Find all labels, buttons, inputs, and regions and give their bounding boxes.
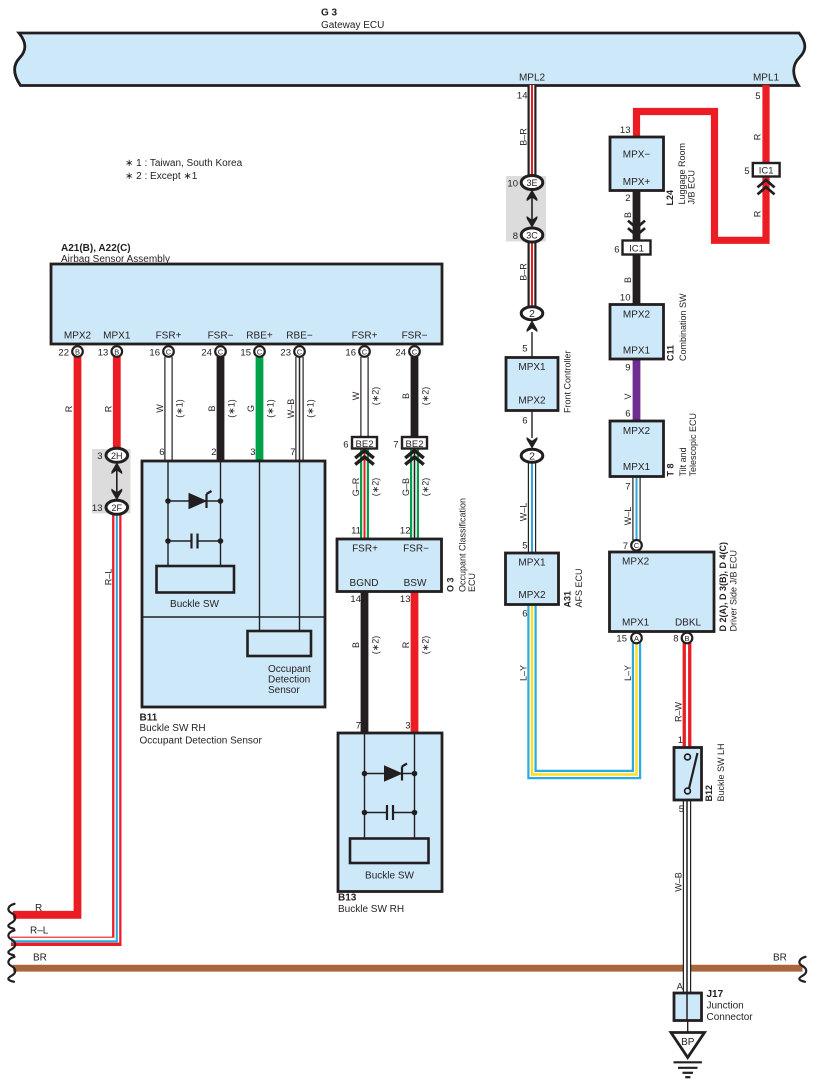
ECU C11 combination SW [610,305,664,360]
wire G RBE+ to B11 [256,357,264,461]
wire W-B RBE- to B11 [295,357,303,461]
svg-text:3: 3 [405,721,410,732]
svg-text:13: 13 [620,125,631,136]
svg-text:MPL2: MPL2 [519,73,546,84]
svg-text:MPX1: MPX1 [622,618,650,629]
svg-text:MPX1: MPX1 [103,331,131,342]
svg-text:Combination SW: Combination SW [678,293,688,361]
svg-text:R: R [401,641,411,648]
svg-text:MPX−: MPX− [623,150,651,161]
svg-text:R: R [753,133,763,140]
svg-text:MPL1: MPL1 [753,73,780,84]
svg-text:MPX2: MPX2 [518,590,546,601]
svg-text:B: B [401,393,411,399]
svg-text:2H: 2H [111,451,123,461]
diode (zener) in B11 [165,491,223,509]
svg-text:Sensor: Sensor [268,685,300,696]
svg-text:16: 16 [345,348,356,359]
terminal 24(C) FSR- [215,346,226,357]
svg-text:R: R [35,903,42,914]
svg-text:14: 14 [350,594,361,605]
svg-text:(∗2): (∗2) [371,387,381,406]
svg-text:3: 3 [250,447,255,458]
svg-text:A31: A31 [563,591,573,608]
terminal 24(C) FSR-2 [409,346,420,357]
svg-text:L–Y: L–Y [519,665,529,681]
joint circle 2 upper [521,307,543,320]
terminal 23(C) RBE- [294,346,305,357]
wire L-Y from A31 to D-JB pin15 [532,605,637,775]
svg-text:MPX2: MPX2 [622,557,650,568]
svg-text:BSW: BSW [404,578,427,589]
svg-text:6: 6 [343,440,348,451]
svg-text:7: 7 [290,447,295,458]
wire R BSW to B13 [411,592,419,734]
svg-text:Buckle SW RH: Buckle SW RH [338,904,404,915]
break squiggle BR left [8,957,15,982]
svg-text:C: C [634,541,640,550]
arrow pair between 2H and 2F [111,462,122,500]
svg-text:Buckle SW: Buckle SW [365,871,414,882]
wire W FSR+ to B11 [164,357,172,461]
buckle SW box in B13 [350,839,429,864]
svg-text:13: 13 [92,503,103,514]
svg-text:12: 12 [400,526,411,537]
wire B L24 to C11 [633,191,641,305]
svg-text:16: 16 [149,348,160,359]
svg-text:R–L: R–L [30,926,49,937]
svg-text:FSR−: FSR− [208,331,234,342]
svg-text:W–B: W–B [286,399,296,419]
svg-text:AFS ECU: AFS ECU [574,568,584,607]
svg-text:R: R [103,405,113,412]
svg-text:MPX1: MPX1 [623,346,651,357]
svg-text:13: 13 [98,348,109,359]
svg-text:B: B [623,212,633,218]
wire thin J17 to BP ground [687,1021,689,1034]
svg-text:RBE+: RBE+ [246,331,273,342]
svg-text:R–L: R–L [103,569,113,586]
wire W-L joint2 to A31 [528,463,536,554]
connector oval 3E [521,176,543,190]
ECU T8 tilt and telescopic [610,421,664,477]
wire R-L from 2F to left break [11,514,117,942]
svg-text:8: 8 [673,634,678,645]
svg-text:DBKL: DBKL [675,618,702,629]
wire G-B BE2 to O3 [410,449,419,539]
wire B-R from 3C to joint 2 [528,242,537,307]
svg-text:FSR+: FSR+ [352,544,378,555]
svg-text:Front Controller: Front Controller [563,350,573,413]
ground BP triangle [671,1033,705,1058]
svg-text:B11: B11 [140,713,158,724]
svg-text:(∗2): (∗2) [421,387,431,406]
svg-text:Buckle SW: Buckle SW [170,599,219,610]
connector oval 2F [106,500,128,514]
svg-text:B: B [623,277,633,283]
svg-text:Connector: Connector [707,1012,754,1023]
connector IC1 on L24 black wire [629,222,644,236]
svg-text:Buckle SW LH: Buckle SW LH [716,743,726,801]
svg-text:MPX1: MPX1 [518,558,546,569]
svg-text:(∗1): (∗1) [266,399,276,418]
svg-text:L24: L24 [665,190,675,206]
svg-text:L–Y: L–Y [623,665,633,681]
wire R-W D-JB pin8 to B12 [683,643,692,748]
break squiggle R-L [8,930,15,955]
terminal 13(B) MPX1 [112,346,123,357]
ECU L24 luggage room J/B [610,137,664,191]
terminal 16(C) FSR+2 [359,346,370,357]
wire W FSR+2 to BE2 [360,357,368,437]
break squiggle BR right [799,957,806,982]
svg-text:A21(B), A22(C): A21(B), A22(C) [61,243,131,254]
svg-text:FSR−: FSR− [402,331,428,342]
svg-text:Luggage Room: Luggage Room [677,143,687,205]
svg-text:MPX2: MPX2 [64,331,92,342]
svg-text:W–L: W–L [623,507,633,526]
svg-text:ECU: ECU [467,573,477,592]
svg-text:C: C [257,347,263,356]
svg-text:(∗2): (∗2) [421,636,431,655]
svg-text:(∗1): (∗1) [306,399,316,418]
ECU B13 buckle SW RH [338,733,442,892]
svg-text:2: 2 [529,451,535,463]
svg-text:5: 5 [522,344,527,355]
ECU front controller [506,358,558,411]
gray connector block 3E/3C [506,176,546,242]
connector IC1 on MPL1 red wire [753,163,780,177]
buckle SW box in B11 [157,566,235,593]
svg-text:11: 11 [351,526,361,537]
svg-text:6: 6 [614,245,619,256]
ECU airbag sensor assembly A21/A22 [51,264,442,344]
terminal 22(B) MPX2 [72,346,83,357]
svg-text:Buckle SW RH: Buckle SW RH [140,723,206,734]
svg-text:B: B [75,347,80,356]
svg-text:C: C [412,347,418,356]
svg-text:C: C [362,347,368,356]
wire W-B B12 to J17 [683,800,691,1021]
svg-text:24: 24 [395,348,406,359]
wire B-R from MPL2 to 3E [528,85,537,176]
svg-text:6: 6 [625,409,630,420]
break squiggle R [8,904,15,929]
svg-text:B: B [351,642,361,648]
connector oval 2H [106,448,128,462]
svg-text:D 2(A), D 3(B), D 4(C): D 2(A), D 3(B), D 4(C) [718,542,728,632]
gateway band G3 [15,33,805,86]
occupant detection sensor box in B11 [248,631,312,656]
svg-text:5: 5 [744,166,749,177]
svg-text:1: 1 [678,735,683,746]
svg-text:B: B [684,634,689,643]
svg-text:MPX2: MPX2 [518,396,546,407]
svg-text:2: 2 [625,193,630,204]
svg-text:IC1: IC1 [629,244,644,255]
svg-text:MPX1: MPX1 [623,462,651,473]
ECU A31 AFS [506,553,559,605]
terminal circles airbag assembly [72,346,420,357]
svg-text:3E: 3E [526,178,537,188]
wire W-L T8 to D-JB [632,477,640,541]
svg-text:G–B: G–B [401,478,411,496]
svg-text:∗ 2 : Except ∗1: ∗ 2 : Except ∗1 [125,171,198,182]
connector BE2 pin6 [352,437,377,449]
wire B BGND to B13 [361,592,369,734]
svg-text:15: 15 [240,348,251,359]
connector BE2 pin7 [402,437,427,449]
svg-text:10: 10 [507,179,518,190]
switch B12 buckle SW LH [674,748,702,801]
wire G-R BE2 to O3 [360,449,369,539]
wire V C11 to T8 [633,359,641,421]
svg-text:7: 7 [625,482,630,493]
WIRE COLOR LABELS (vertical) [64,128,763,892]
svg-text:(∗2): (∗2) [421,478,431,497]
junction connector J17 [674,993,702,1021]
ECU O3 occupant classification [337,539,442,592]
svg-text:RBE−: RBE− [286,331,313,342]
ground symbol [674,1062,702,1077]
svg-text:C: C [297,347,303,356]
terminal 15(C) RBE+ [254,346,265,357]
svg-text:R–W: R–W [674,701,684,722]
svg-text:3: 3 [97,451,102,462]
svg-text:(∗2): (∗2) [371,478,381,497]
wire R from MPX1 to 2H [113,357,121,449]
PIN NUMBER LABELS [58,91,760,993]
svg-text:23: 23 [280,348,291,359]
svg-text:W: W [155,404,165,413]
svg-text:W–B: W–B [674,872,684,892]
svg-text:MPX2: MPX2 [623,426,651,437]
svg-text:G–R: G–R [351,477,361,496]
svg-text:Occupant Detection Sensor: Occupant Detection Sensor [140,736,263,747]
svg-text:Gateway ECU: Gateway ECU [321,20,384,31]
svg-text:3C: 3C [526,231,538,241]
wire BR brown ground bus [13,965,803,972]
joint circle 2 lower [527,437,538,449]
svg-text:FSR+: FSR+ [156,331,182,342]
wire R MPL1 loop to L24 [637,85,767,240]
svg-text:T 8: T 8 [666,463,676,476]
svg-text:6: 6 [159,447,164,458]
terminal 16(C) FSR+ [163,346,174,357]
svg-text:7: 7 [623,541,628,552]
svg-text:C: C [218,347,224,356]
gray connector block 2H/2F [92,449,131,514]
svg-text:∗ 1 : Taiwan, South Korea: ∗ 1 : Taiwan, South Korea [125,158,243,169]
svg-text:7: 7 [356,721,361,732]
svg-text:C11: C11 [666,345,676,361]
svg-text:Occupant Classification: Occupant Classification [458,498,468,592]
terminal circle B on D-JB [682,633,693,644]
svg-text:G 3: G 3 [321,8,338,19]
svg-text:5: 5 [679,804,684,815]
svg-text:A: A [634,634,639,643]
svg-text:FSR−: FSR− [403,544,429,555]
svg-text:C: C [166,347,172,356]
svg-text:9: 9 [625,363,630,374]
svg-text:BGND: BGND [350,578,379,589]
svg-text:7: 7 [393,440,398,451]
svg-text:6: 6 [522,416,527,427]
wire B FSR- to B11 [217,357,225,461]
svg-text:O 3: O 3 [446,577,456,592]
svg-text:FSR+: FSR+ [352,331,378,342]
svg-text:B: B [207,405,217,411]
svg-text:MPX+: MPX+ [623,177,651,188]
svg-text:(∗1): (∗1) [175,399,185,418]
svg-text:Tilt and: Tilt and [678,447,688,476]
svg-text:5: 5 [522,541,527,552]
svg-text:(∗2): (∗2) [371,636,381,655]
svg-text:B–R: B–R [519,128,529,146]
svg-text:BR: BR [773,953,787,964]
svg-text:R: R [753,210,763,217]
svg-text:MPX2: MPX2 [623,310,651,321]
wire thin Front Controller to joint2 [531,411,533,439]
svg-text:8: 8 [513,231,518,242]
svg-text:R: R [64,405,74,412]
ECU B11 buckle SW RH / occupant detection sensor [142,461,325,707]
svg-text:B12: B12 [704,785,714,802]
svg-text:IC1: IC1 [759,166,774,177]
svg-text:6: 6 [522,609,527,620]
svg-text:Telescopic ECU: Telescopic ECU [688,413,698,477]
diode (zener) in B13 [362,764,418,782]
svg-text:V: V [623,393,633,399]
svg-text:J/B ECU: J/B ECU [687,170,697,205]
wire R from MPX2 to left break [13,357,78,915]
capacitor in B11 [165,534,223,549]
svg-text:BP: BP [681,1037,695,1048]
svg-text:B–R: B–R [519,263,529,281]
svg-text:BR: BR [33,953,47,964]
svg-text:MPX1: MPX1 [518,362,546,373]
svg-text:(∗1): (∗1) [227,399,237,418]
svg-text:Occupant: Occupant [268,664,311,675]
svg-text:Detection: Detection [268,675,310,686]
svg-text:15: 15 [616,634,627,645]
capacitor in B13 [362,805,418,820]
terminal circle C on D-JB [631,540,642,551]
svg-text:Driver Side J/B ECU: Driver Side J/B ECU [729,550,739,632]
svg-text:Junction: Junction [707,1001,744,1012]
svg-text:24: 24 [201,348,212,359]
svg-text:22: 22 [58,348,69,359]
wire thin joint2 to Front Controller [531,332,533,358]
terminal circle A on D-JB [631,633,642,644]
svg-text:W: W [351,391,361,400]
svg-text:A: A [677,982,684,993]
svg-text:B: B [114,347,119,356]
svg-text:Airbag Sensor Assembly: Airbag Sensor Assembly [61,254,170,265]
svg-text:G: G [246,405,256,412]
svg-text:2: 2 [529,308,535,320]
svg-text:W–L: W–L [519,503,529,522]
svg-text:10: 10 [620,293,631,304]
svg-text:J17: J17 [707,989,724,1000]
connector oval 3C [521,228,543,242]
wire B FSR-2 to BE2 [411,357,419,437]
arrow pair between 3E and 3C [527,190,538,228]
svg-text:2: 2 [211,447,216,458]
svg-text:13: 13 [400,594,411,605]
ECU D2/D3/D4 driver side J/B [610,552,715,632]
svg-text:5: 5 [755,91,760,102]
svg-text:2F: 2F [112,503,123,513]
svg-text:B13: B13 [338,893,357,904]
svg-text:14: 14 [517,91,528,102]
